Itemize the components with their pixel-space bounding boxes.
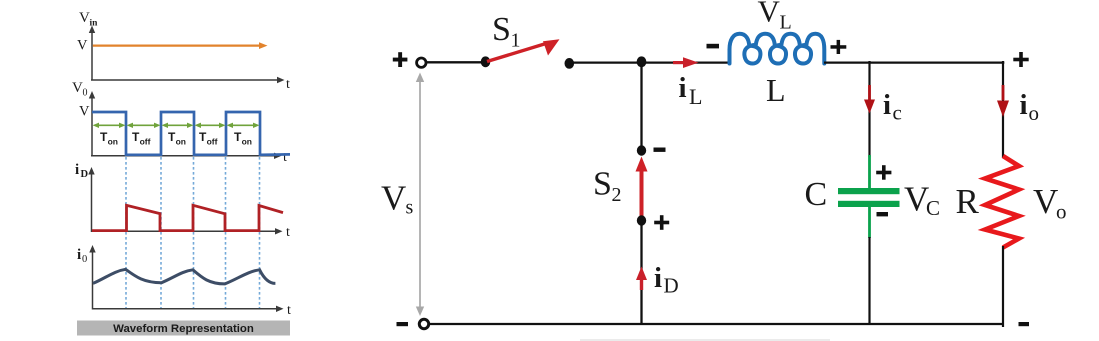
label + (source positive) [393, 52, 408, 67]
label Vin [79, 10, 98, 29]
resistor R zigzag (red) [985, 156, 1019, 248]
label Vo (output voltage) [1033, 182, 1067, 224]
Vs measurement arrow (gray, double headed) [416, 73, 424, 317]
wire resistor branch lower [1002, 246, 1004, 327]
dashed timing gridline x=193.5 [193, 157, 195, 308]
node S2 bottom [637, 215, 646, 225]
svg-text:in: in [90, 19, 99, 29]
label R [956, 182, 980, 221]
label i0 [77, 247, 87, 265]
green duty interval arrow Ton3 [227, 123, 260, 128]
i0 ripple waveform (dark navy) [93, 269, 275, 284]
wire S2 branch upper [640, 62, 642, 151]
label iD [75, 162, 89, 180]
svg-text:s: s [406, 197, 414, 219]
current arrow ic (red, down) [864, 85, 875, 114]
label C [805, 176, 828, 213]
green duty interval arrow Ton1 [93, 123, 126, 128]
capacitor C lead upper (green) [868, 155, 871, 189]
svg-text:R: R [956, 182, 980, 221]
junction node (S2 branch top) [637, 56, 647, 67]
label + (inductor right polarity) [831, 40, 847, 54]
svg-text:1: 1 [511, 30, 521, 52]
wire bottom rail [429, 323, 1003, 325]
terminal node (top, open circle) [417, 58, 426, 67]
label io [1020, 89, 1040, 125]
dashed timing gridline x=161 [160, 157, 162, 308]
svg-text:S: S [492, 11, 511, 48]
svg-text:V: V [79, 10, 90, 26]
svg-text:t: t [283, 150, 287, 165]
label t (i0 axis) [287, 303, 291, 318]
svg-text:on: on [108, 137, 118, 147]
label + (output positive) [1013, 52, 1028, 67]
svg-text:i: i [883, 89, 891, 121]
svg-text:Waveform Representation: Waveform Representation [113, 323, 254, 335]
label + (S2 bottom polarity) [654, 215, 669, 230]
node S2 top [637, 145, 646, 155]
svg-text:L: L [766, 72, 786, 108]
node S1 left [481, 56, 491, 67]
svg-text:i: i [75, 162, 79, 178]
svg-text:D: D [664, 274, 679, 298]
axis iD plot [88, 167, 282, 235]
Vin constant waveform (orange) [93, 42, 268, 49]
label + (capacitor top polarity) [876, 165, 891, 180]
switch S2 (red arm, arrow up) [636, 157, 648, 220]
label - (S2 top polarity) [654, 148, 666, 152]
caption bar Waveform Representation [77, 321, 290, 336]
label V (Vin level) [77, 38, 88, 54]
svg-text:0: 0 [83, 88, 88, 99]
label - (inductor left polarity) [707, 44, 720, 49]
terminal node (bottom, open circle) [419, 319, 428, 328]
svg-text:D: D [81, 169, 89, 180]
label VC [904, 180, 940, 221]
svg-text:V: V [72, 80, 83, 96]
label - (source negative) [397, 322, 409, 326]
cropped caption remnant (bottom) [580, 339, 830, 341]
switch S1 (red arm) [487, 39, 560, 61]
label - (capacitor bottom polarity) [877, 212, 889, 216]
dashed timing gridline x=259.5 [259, 157, 261, 308]
wire top rail: inductor to resistor branch [824, 61, 1004, 63]
svg-text:off: off [140, 137, 151, 147]
inductor L coil [730, 34, 825, 64]
axis i0 plot [89, 245, 283, 312]
label Vs [381, 179, 414, 219]
label ic [883, 89, 902, 125]
svg-text:C: C [805, 176, 828, 213]
label - (output negative) [1019, 322, 1030, 326]
svg-text:on: on [176, 137, 186, 147]
svg-text:o: o [1029, 101, 1040, 125]
label t (Vin axis) [286, 77, 290, 92]
svg-text:0: 0 [82, 254, 87, 265]
Vo square waveform (blue) [92, 112, 290, 155]
current arrow io (red, down) [997, 85, 1009, 117]
svg-text:t: t [286, 77, 290, 92]
svg-text:on: on [242, 137, 252, 147]
wire resistor branch upper [1002, 61, 1004, 158]
dashed timing gridline x=225.5 [225, 157, 227, 308]
label Toff 2 [199, 130, 218, 147]
label iD [654, 262, 679, 298]
svg-text:V: V [758, 0, 781, 29]
dashed timing gridline x=126 [125, 157, 127, 308]
green duty interval arrow Toff1 [127, 123, 161, 128]
svg-text:S: S [593, 166, 612, 203]
svg-text:i: i [679, 72, 687, 104]
iD diode-current waveform (dark red) [92, 205, 283, 230]
wire capacitor branch lower (black) [868, 237, 870, 325]
svg-text:i: i [1020, 89, 1028, 121]
label L [766, 72, 786, 108]
svg-text:V: V [381, 179, 406, 218]
label t (iD axis) [286, 225, 290, 240]
svg-text:off: off [207, 137, 218, 147]
svg-text:i: i [654, 262, 662, 294]
wire S2 branch lower [640, 222, 642, 325]
wire top rail: junction to inductor [642, 61, 731, 63]
svg-text:i: i [77, 247, 81, 263]
svg-text:L: L [689, 84, 702, 109]
green duty interval arrow Ton2 [162, 123, 194, 128]
label iL [679, 72, 703, 109]
capacitor C lead lower (green) [868, 207, 871, 238]
label VL [758, 0, 792, 34]
label Vo [72, 80, 88, 99]
svg-text:o: o [1056, 200, 1067, 224]
label Ton 1 [100, 130, 118, 147]
capacitor C plates (green) [838, 188, 900, 207]
node S1 right [565, 58, 575, 69]
current arrow iL (red) [673, 57, 699, 68]
label S2 [593, 166, 622, 207]
svg-text:C: C [926, 196, 940, 220]
wire top rail: S1 to junction [570, 61, 643, 63]
label t (Vo axis) [283, 150, 287, 165]
current arrow iD (red, up) [636, 267, 647, 291]
label Ton 2 [168, 130, 186, 147]
svg-text:t: t [287, 303, 291, 318]
label S1 [492, 11, 521, 52]
svg-text:V: V [77, 38, 88, 54]
axis Vo plot [89, 91, 282, 159]
wire capacitor branch upper (black) [868, 61, 870, 157]
svg-text:t: t [286, 225, 290, 240]
svg-text:V: V [1033, 182, 1058, 221]
svg-text:c: c [893, 101, 902, 125]
axis Vin plot [89, 26, 285, 84]
label Toff 1 [132, 130, 151, 147]
label V (Vo level) [79, 104, 90, 120]
svg-text:2: 2 [612, 184, 622, 206]
label Ton 3 [234, 130, 252, 147]
svg-text:L: L [780, 12, 792, 34]
green duty interval arrow Toff2 [195, 123, 226, 128]
svg-text:V: V [79, 104, 90, 120]
wire top rail: terminal to S1 [426, 61, 486, 63]
